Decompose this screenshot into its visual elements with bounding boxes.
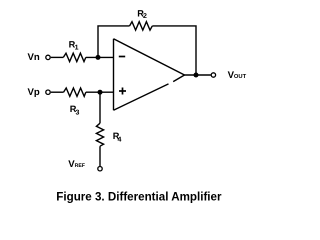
svg-text:1: 1	[75, 45, 79, 52]
svg-text:OUT: OUT	[234, 73, 247, 80]
svg-text:4: 4	[118, 136, 122, 143]
svg-text:Figure 3. Differential Amplifi: Figure 3. Differential Amplifier	[56, 190, 222, 203]
svg-text:Vn: Vn	[28, 52, 40, 63]
svg-text:Vp: Vp	[28, 87, 40, 98]
svg-text:REF: REF	[75, 163, 85, 169]
svg-text:3: 3	[76, 109, 80, 116]
svg-text:2: 2	[143, 13, 147, 20]
